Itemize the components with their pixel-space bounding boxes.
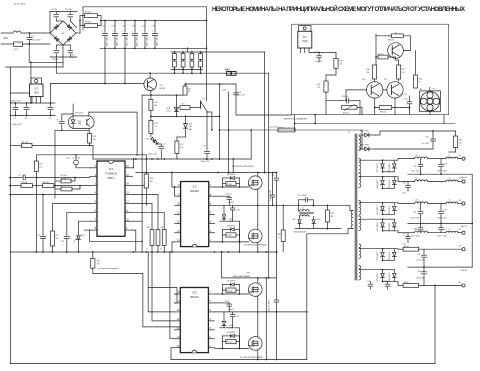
svg-text:НЕКОТОРЫЕ НОМИНАЛЫ НА ПРИНЦИПИ: НЕКОТОРЫЕ НОМИНАЛЫ НА ПРИНЦИПИАЛЬНОЙ СХЕ… — [212, 5, 465, 13]
svg-text:C18: C18 — [132, 26, 135, 28]
svg-text:IC1: IC1 — [109, 167, 114, 171]
svg-text:R1 10k: R1 10k — [22, 142, 28, 144]
svg-text:R23 1Г: R23 1Г — [225, 69, 230, 71]
svg-text:VD12 SF16: VD12 SF16 — [360, 145, 369, 147]
svg-text:R39 47: R39 47 — [404, 246, 409, 248]
svg-text:5u33 x 50V: 5u33 x 50V — [416, 278, 425, 280]
svg-text:+U=65V: +U=65V — [228, 309, 235, 311]
svg-text:GND U3: GND U3 — [461, 270, 468, 272]
svg-text:L4: L4 — [449, 200, 451, 202]
svg-text:4700u x 100V: 4700u x 100V — [437, 236, 448, 238]
svg-text:R21: R21 — [188, 88, 191, 90]
svg-text:ST 05 SY/DS: ST 05 SY/DS — [14, 4, 26, 6]
svg-text:R10: R10 — [155, 102, 158, 104]
svg-text:C29 1u: C29 1u — [226, 194, 232, 196]
svg-text:VD15 КД2997: VD15 КД2997 — [377, 179, 379, 189]
svg-text:C11 20n: C11 20n — [65, 9, 72, 11]
svg-text:240: 240 — [180, 147, 183, 149]
svg-text:47u x 25V: 47u x 25V — [73, 158, 81, 160]
svg-text:VD22 КД2997: VD22 КД2997 — [389, 251, 391, 261]
svg-text:VT2: VT2 — [388, 36, 391, 38]
svg-text:1N4148 1N4148: 1N4148 1N4148 — [294, 231, 306, 233]
svg-text:VD9: VD9 — [229, 219, 232, 221]
svg-text:VD7 SF16: VD7 SF16 — [227, 281, 235, 283]
svg-text:R22 47к: R22 47к — [343, 112, 349, 114]
svg-text:C22: C22 — [203, 146, 206, 148]
svg-text:C30 1u0 x 400V: C30 1u0 x 400V — [268, 299, 270, 312]
svg-text:~220: ~220 — [3, 37, 9, 40]
svg-text:+: + — [158, 147, 159, 149]
svg-text:R12: R12 — [182, 104, 185, 106]
svg-text:GND U2: GND U2 — [461, 226, 468, 228]
svg-text:L5: L5 — [449, 229, 451, 231]
svg-text:2k: 2k — [146, 249, 148, 251]
svg-text:M1: M1 — [420, 89, 422, 91]
svg-text:K1: K1 — [203, 99, 205, 101]
svg-text:GND U1: GND U1 — [461, 177, 468, 179]
svg-text:L3: L3 — [449, 178, 451, 180]
svg-text:L1.4: L1.4 — [415, 229, 418, 231]
svg-text:R40: R40 — [419, 79, 422, 81]
svg-text:C28: C28 — [237, 210, 240, 212]
svg-text:VD21 КД2997: VD21 КД2997 — [377, 251, 379, 261]
svg-text:C17: C17 — [163, 144, 166, 146]
svg-text:L1.1: L1.1 — [415, 155, 418, 157]
svg-text:2u2 x 400V: 2u2 x 400V — [32, 40, 42, 42]
svg-text:1k: 1k — [155, 126, 157, 128]
svg-text:VT8: VT8 — [362, 79, 365, 81]
svg-text:C9: C9 — [56, 120, 58, 122]
svg-text:C36: C36 — [403, 182, 406, 184]
svg-text:R15: R15 — [147, 227, 150, 229]
svg-text:VD11 SF16: VD11 SF16 — [360, 131, 369, 133]
svg-text:+U2: +U2 — [458, 200, 461, 202]
svg-text:L1.3: L1.3 — [415, 200, 418, 202]
svg-text:R24 30: R24 30 — [227, 184, 232, 186]
svg-text:C6: C6 — [49, 118, 51, 120]
svg-text:R3: R3 — [39, 164, 41, 166]
svg-text:C33 0u15: C33 0u15 — [342, 96, 349, 98]
svg-text:R14: R14 — [150, 178, 153, 180]
svg-text:R32: R32 — [331, 213, 334, 215]
svg-text:VD18 КД2997: VD18 КД2997 — [389, 205, 391, 215]
svg-text:47u x 20V: 47u x 20V — [422, 143, 430, 145]
svg-text:C3: C3 — [25, 118, 27, 120]
svg-text:R30: R30 — [318, 84, 321, 86]
svg-text:C25 1u: C25 1u — [225, 301, 231, 303]
svg-text:75: 75 — [419, 82, 421, 84]
svg-text:VS1: VS1 — [81, 235, 85, 237]
svg-text:R26 30: R26 30 — [227, 290, 232, 292]
svg-text:VD8 SF16: VD8 SF16 — [227, 174, 235, 176]
svg-text:C27: C27 — [237, 316, 240, 318]
svg-text:C47: C47 — [418, 254, 421, 256]
svg-text:-U2: -U2 — [458, 229, 461, 231]
svg-text:-U1: -U1 — [458, 178, 461, 180]
svg-text:R19: R19 — [93, 136, 96, 138]
svg-text:VD5 SF16: VD5 SF16 — [227, 332, 235, 334]
svg-text:100n x 400V: 100n x 400V — [147, 36, 149, 46]
svg-text:VD14 КД2997: VD14 КД2997 — [389, 163, 391, 173]
svg-text:C41: C41 — [414, 212, 417, 214]
svg-text:47k: 47k — [97, 264, 100, 266]
svg-text:7918: 7918 — [302, 41, 308, 43]
svg-text:470: 470 — [93, 139, 96, 141]
svg-text:1000u x 25V: 1000u x 25V — [201, 161, 211, 163]
svg-text:C2 + 1u0: C2 + 1u0 — [18, 175, 25, 177]
svg-text:C37: C37 — [403, 233, 406, 235]
svg-text:-U3: -U3 — [458, 282, 461, 284]
svg-text:60кГц: 60кГц — [107, 176, 115, 180]
svg-text:110k: 110k — [366, 72, 370, 74]
svg-text:C19: C19 — [142, 26, 145, 28]
svg-text:10k: 10k — [340, 64, 343, 66]
svg-text:C14: C14 — [61, 241, 64, 243]
svg-text:R13: R13 — [155, 123, 158, 125]
svg-text:C38: C38 — [414, 166, 417, 168]
svg-text:10k: 10k — [56, 238, 59, 240]
svg-text:C5: C5 — [38, 235, 40, 237]
svg-text:VD13 КД2997: VD13 КД2997 — [377, 163, 379, 173]
svg-text:VD9: VD9 — [293, 219, 296, 221]
svg-text:R34: R34 — [367, 69, 370, 71]
svg-text:+C46: +C46 — [443, 210, 447, 212]
svg-text:VD19 КД2997: VD19 КД2997 — [377, 222, 379, 232]
svg-text:VD23 КД2997: VD23 КД2997 — [377, 272, 379, 282]
svg-text:100n x 400V: 100n x 400V — [107, 36, 109, 46]
svg-text:C20: C20 — [152, 26, 155, 28]
svg-text:100n x 400V: 100n x 400V — [127, 36, 129, 46]
svg-text:VT4: VT4 — [247, 272, 250, 274]
svg-text:+C47: +C47 — [443, 229, 447, 231]
svg-text:A1 PC817: A1 PC817 — [75, 112, 83, 115]
svg-text:L2: L2 — [449, 155, 451, 157]
svg-text:9k1: 9k1 — [155, 105, 158, 107]
svg-text:VT3 IRFP460 (IRFP22N60K): VT3 IRFP460 (IRFP22N60K) — [244, 244, 267, 246]
svg-text:51: 51 — [395, 33, 397, 35]
svg-text:IC2: IC2 — [192, 185, 197, 189]
svg-text:10k: 10k — [39, 167, 42, 169]
svg-text:C48: C48 — [418, 271, 421, 273]
svg-text:TL494CN: TL494CN — [105, 171, 117, 175]
svg-text:100n x 400V: 100n x 400V — [117, 36, 119, 46]
svg-text:R27 30: R27 30 — [227, 342, 232, 344]
svg-text:VD: VD — [62, 33, 65, 35]
svg-text:100u: 100u — [403, 243, 407, 245]
svg-text:5u33 x 50V: 5u33 x 50V — [416, 259, 425, 261]
svg-text:C1: C1 — [14, 118, 16, 120]
svg-text:VD1: VD1 — [146, 139, 150, 141]
svg-text:2k: 2k — [160, 249, 162, 251]
svg-text:VD16 КД2997: VD16 КД2997 — [389, 179, 391, 189]
svg-text:VD24 КД2997: VD24 КД2997 — [389, 272, 391, 282]
svg-text:IC2: IC2 — [192, 291, 197, 295]
svg-text:C15: C15 — [102, 26, 105, 28]
svg-text:R38 100: R38 100 — [380, 111, 386, 113]
svg-text:4700u x 100V: 4700u x 100V — [437, 171, 448, 173]
svg-text:+U=65V: +U=65V — [228, 202, 235, 204]
svg-text:R36: R36 — [278, 234, 281, 236]
svg-text:TL431: TL431 — [166, 111, 171, 113]
svg-text:R46: R46 — [459, 140, 462, 142]
svg-text:+U3: +U3 — [458, 246, 461, 248]
svg-text:C8 20n: C8 20n — [52, 59, 58, 61]
svg-text:R5 4k7: R5 4k7 — [61, 178, 66, 180]
svg-text:C17: C17 — [122, 26, 125, 28]
svg-text:+C34: +C34 — [404, 99, 408, 101]
svg-text:R40 47: R40 47 — [404, 282, 409, 284]
svg-text:VS2: VS2 — [189, 124, 192, 126]
svg-text:VT5 IRFP460 (IRFP22N60K): VT5 IRFP460 (IRFP22N60K) — [240, 357, 263, 359]
svg-text:R2 13k: R2 13k — [22, 182, 28, 184]
svg-text:+: + — [200, 148, 201, 150]
svg-text:C13: C13 — [66, 158, 69, 160]
svg-text:+C51: +C51 — [384, 281, 388, 283]
svg-text:BD906: BD906 — [160, 88, 166, 90]
svg-text:5u33 x 100V: 5u33 x 100V — [411, 236, 421, 238]
svg-text:L1.2: L1.2 — [415, 178, 418, 180]
svg-text:+U1: +U1 — [458, 155, 461, 157]
svg-text:VT2 IRFP460 (IRFP22N60K): VT2 IRFP460 (IRFP22N60K) — [232, 166, 254, 168]
svg-text:9k8: 9k8 — [189, 126, 192, 128]
svg-text:7815: 7815 — [34, 92, 40, 95]
svg-text:1000u x 25V: 1000u x 25V — [148, 153, 158, 155]
svg-text:+C44: +C44 — [443, 164, 447, 166]
svg-text:1000u x 50V: 1000u x 50V — [11, 101, 21, 103]
svg-text:390: 390 — [331, 216, 334, 218]
svg-text:IR2110: IR2110 — [190, 189, 199, 193]
svg-text:27k: 27k — [318, 87, 321, 89]
svg-text:VD17 КД2997: VD17 КД2997 — [377, 205, 379, 215]
svg-text:302: 302 — [188, 91, 191, 93]
svg-text:R25 30: R25 30 — [227, 235, 232, 237]
svg-text:VD10: VD10 — [317, 219, 321, 221]
svg-text:BD140: BD140 — [388, 40, 394, 42]
svg-text:10k: 10k — [150, 181, 153, 183]
svg-text:R4 470: R4 470 — [43, 182, 49, 184]
svg-text:100n x 400V: 100n x 400V — [137, 36, 139, 46]
svg-text:2k: 2k — [278, 237, 280, 239]
svg-text:R16: R16 — [161, 227, 164, 229]
svg-text:не установлен: не установлен — [268, 127, 278, 129]
svg-text:47u x 25V: 47u x 25V — [400, 94, 407, 96]
svg-text:C7 20n: C7 20n — [51, 9, 57, 11]
svg-text:5u33 x 100V: 5u33 x 100V — [411, 171, 421, 173]
svg-text:R9 110: R9 110 — [85, 22, 91, 24]
svg-text:VT1: VT1 — [160, 85, 163, 87]
svg-text:470: 470 — [459, 143, 462, 145]
svg-text:100n x 400V: 100n x 400V — [157, 36, 159, 46]
svg-text:VT9: VT9 — [384, 79, 387, 81]
svg-text:100u: 100u — [403, 192, 407, 194]
svg-text:R37: R37 — [402, 69, 405, 71]
svg-text:5u33 x 100V: 5u33 x 100V — [411, 218, 421, 220]
svg-text:VD2: VD2 — [167, 108, 170, 110]
svg-text:R8 110: R8 110 — [85, 12, 91, 14]
svg-text:R11: R11 — [97, 261, 100, 263]
svg-text:4700u x 100V: 4700u x 100V — [437, 218, 448, 220]
svg-text:C23: C23 — [272, 175, 275, 177]
svg-text:47u x 25V: 47u x 25V — [315, 61, 323, 63]
svg-text:R28 47k: R28 47k — [278, 128, 284, 130]
svg-text:установлено для переделки: установлено для переделки — [98, 268, 119, 270]
svg-text:R29: R29 — [340, 61, 343, 63]
svg-text:R9: R9 — [56, 235, 58, 237]
svg-text:R33 5k1: R33 5k1 — [378, 54, 384, 56]
svg-text:C10 6u8: C10 6u8 — [60, 175, 66, 177]
svg-text:1000u x 50V: 1000u x 50V — [12, 124, 22, 126]
svg-text:C16: C16 — [112, 26, 115, 28]
svg-text:IR2110: IR2110 — [190, 295, 199, 299]
svg-text:5k1: 5k1 — [402, 72, 405, 74]
svg-text:C21 + 1000u: C21 + 1000u — [297, 195, 307, 197]
svg-text:+C40: +C40 — [425, 137, 429, 139]
svg-text:VD10: VD10 — [229, 325, 233, 327]
svg-text:+C50: +C50 — [367, 281, 371, 283]
svg-text:IRF940 (IRFP22N60K): IRF940 (IRFP22N60K) — [233, 276, 251, 278]
svg-text:R17: R17 — [180, 144, 183, 146]
svg-text:VD20 КД2997: VD20 КД2997 — [389, 222, 391, 232]
svg-text:VD6 SF16: VD6 SF16 — [227, 226, 235, 228]
svg-text:IC3: IC3 — [34, 88, 38, 91]
svg-text:68n: 68n — [71, 57, 74, 59]
